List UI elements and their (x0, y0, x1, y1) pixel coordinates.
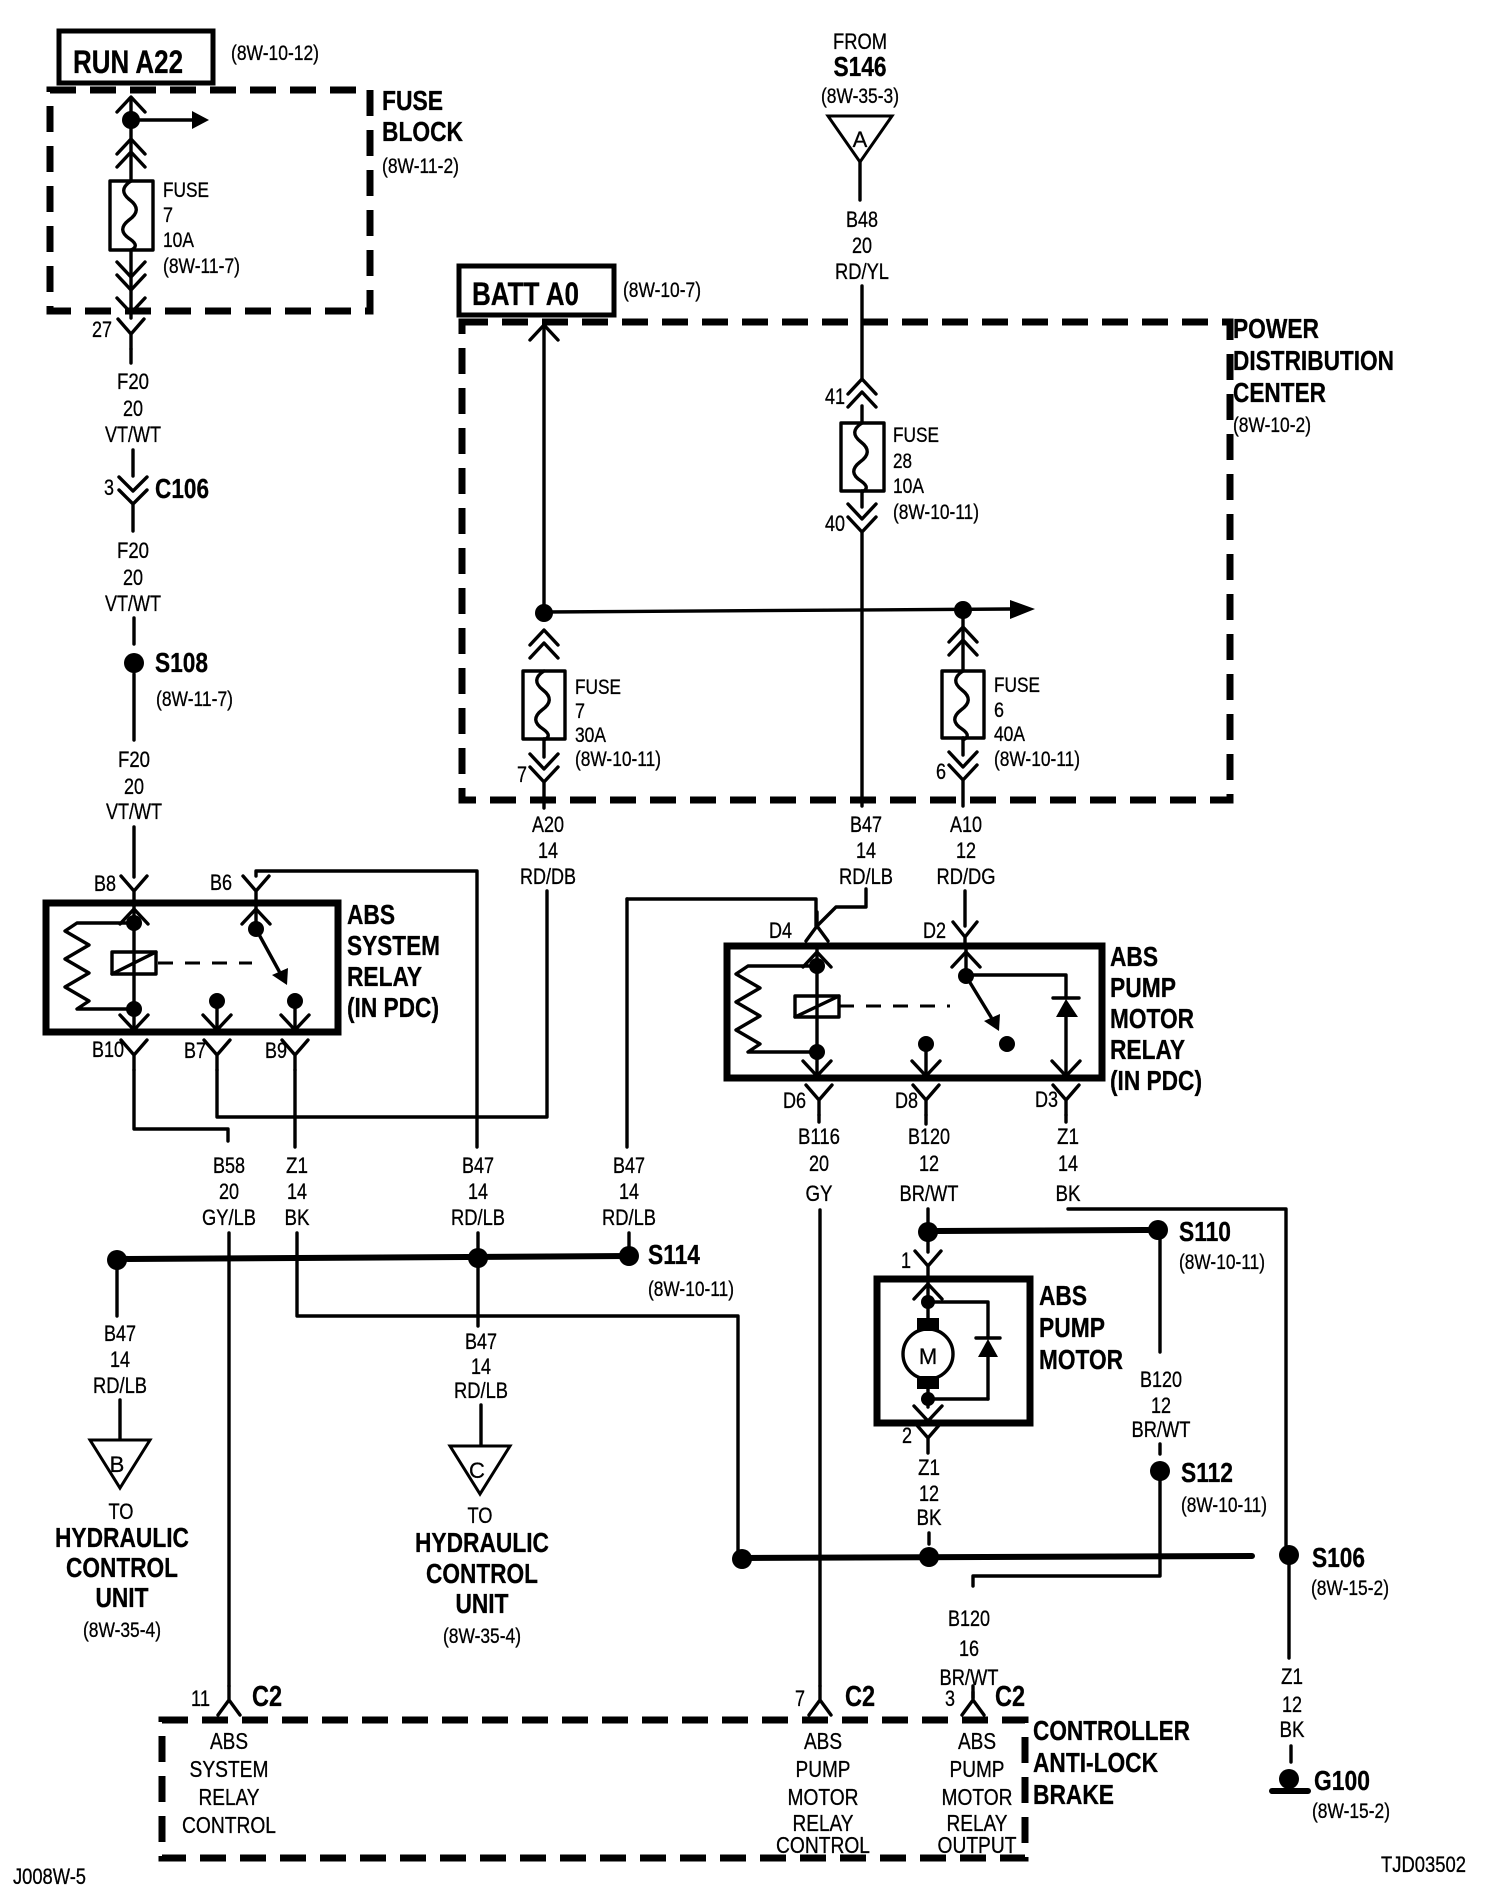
svg-text:FUSE: FUSE (893, 424, 939, 447)
svg-text:D4: D4 (769, 918, 792, 943)
svg-text:PUMP: PUMP (1039, 1312, 1105, 1343)
label Z1 14 BK (1056, 1124, 1081, 1206)
ground G100 (1272, 1769, 1308, 1791)
label B120 16 BR/WT (940, 1606, 999, 1690)
relay box ABS PUMP MOTOR RELAY (727, 946, 1102, 1078)
junction B47 (468, 1248, 488, 1268)
arrow out at D8 (912, 1061, 940, 1076)
wire (118, 1400, 121, 1440)
svg-text:RD/LB: RD/LB (602, 1205, 656, 1230)
label Z1 12 BK (1280, 1664, 1305, 1742)
label B48 20 RD/YL (835, 207, 889, 284)
arrow into relay at B6 (242, 909, 270, 924)
svg-text:TO: TO (109, 1499, 134, 1524)
arrow out at D3 (1052, 1061, 1080, 1076)
svg-text:BK: BK (1280, 1717, 1305, 1742)
svg-text:12: 12 (919, 1481, 939, 1506)
svg-text:D8: D8 (895, 1088, 918, 1113)
svg-text:FUSE: FUSE (575, 676, 621, 699)
svg-text:S146: S146 (834, 51, 887, 82)
svg-text:CONTROL: CONTROL (66, 1552, 178, 1583)
label A20 14 RD/DB (520, 812, 576, 889)
wire Z1 from B9 (293, 1070, 296, 1147)
svg-text:7: 7 (163, 204, 173, 227)
svg-text:12: 12 (1151, 1393, 1171, 1418)
svg-text:27: 27 (92, 317, 112, 342)
svg-text:12: 12 (956, 838, 976, 863)
svg-text:G100: G100 (1314, 1765, 1370, 1796)
svg-text:3: 3 (104, 475, 114, 500)
svg-text:ABS: ABS (347, 899, 395, 930)
svg-text:A20: A20 (532, 812, 564, 837)
svg-text:B7: B7 (184, 1038, 206, 1063)
svg-text:SYSTEM: SYSTEM (347, 930, 440, 961)
splice bus S114 (117, 1256, 629, 1259)
wire B120 to S112 (1158, 1230, 1161, 1352)
connector box BATT A0 (459, 266, 614, 315)
fuse 6 40A (942, 671, 984, 740)
wire (1158, 1444, 1161, 1454)
label F20 20 VT/WT (106, 747, 162, 824)
svg-text:7: 7 (575, 700, 585, 723)
svg-text:Z1: Z1 (286, 1153, 308, 1178)
svg-text:BK: BK (1056, 1181, 1081, 1206)
svg-text:(IN PDC): (IN PDC) (1110, 1065, 1202, 1096)
svg-text:14: 14 (287, 1179, 307, 1204)
svg-text:14: 14 (538, 838, 558, 863)
svg-text:S112: S112 (1181, 1457, 1233, 1488)
svg-text:CONTROL: CONTROL (426, 1558, 538, 1589)
wire Z1 to S106 (1068, 1209, 1286, 1552)
svg-text:M: M (919, 1344, 937, 1369)
label ABS SYSTEM RELAY (IN PDC) (347, 899, 440, 1023)
svg-text:6: 6 (936, 759, 946, 784)
label ABS PUMP MOTOR RELAY CONTROL (776, 1728, 870, 1858)
svg-text:VT/WT: VT/WT (106, 799, 162, 824)
svg-text:14: 14 (468, 1179, 488, 1204)
label CONTROLLER ANTI-LOCK BRAKE (1033, 1715, 1190, 1810)
splice S112 (1150, 1461, 1170, 1481)
fuse block dashed box (50, 90, 370, 311)
svg-text:(8W-10-11): (8W-10-11) (575, 748, 661, 771)
splice bus to S110 (936, 1230, 1148, 1231)
svg-text:D3: D3 (1035, 1087, 1058, 1112)
wire (961, 738, 964, 755)
connector D6 (806, 1085, 832, 1115)
svg-text:B47: B47 (613, 1153, 645, 1178)
junction dot (809, 958, 825, 974)
svg-text:Z1: Z1 (1281, 1664, 1303, 1689)
wire relay coil feed (815, 949, 818, 1078)
connector D2 (953, 922, 977, 948)
svg-text:HYDRAULIC: HYDRAULIC (415, 1527, 549, 1558)
svg-text:(8W-35-4): (8W-35-4) (83, 1619, 161, 1642)
svg-text:7: 7 (517, 762, 527, 787)
svg-text:12: 12 (1282, 1692, 1302, 1717)
label ABS PUMP MOTOR RELAY (IN PDC) (1110, 941, 1202, 1096)
svg-text:14: 14 (110, 1347, 130, 1372)
svg-text:B120: B120 (948, 1606, 990, 1631)
label F20 20 VT/WT (105, 538, 161, 616)
label ABS SYSTEM RELAY CONTROL (182, 1728, 276, 1838)
arrow into motor (914, 1284, 942, 1299)
wire to B7 (215, 1001, 218, 1032)
svg-text:C2: C2 (845, 1681, 875, 1713)
connector B6 (243, 876, 269, 906)
wire (479, 1405, 482, 1446)
svg-text:12: 12 (919, 1151, 939, 1176)
double arrow up (848, 379, 876, 407)
svg-text:20: 20 (809, 1151, 829, 1176)
arrow out at D6 (803, 1061, 831, 1076)
svg-text:POWER: POWER (1233, 313, 1319, 344)
svg-text:C: C (469, 1458, 485, 1483)
svg-text:(IN PDC): (IN PDC) (347, 992, 439, 1023)
splice S110 (1148, 1220, 1168, 1240)
svg-text:10A: 10A (893, 475, 924, 498)
wire Z1 from D3 (1064, 1115, 1067, 1122)
svg-text:B8: B8 (94, 871, 116, 896)
svg-text:VT/WT: VT/WT (105, 422, 161, 447)
svg-text:D6: D6 (783, 1088, 806, 1113)
svg-text:B48: B48 (846, 207, 878, 232)
feed bus arrow (544, 600, 1035, 619)
wire from A (858, 162, 861, 200)
junction pin2 Z1 (919, 1547, 939, 1567)
svg-text:B6: B6 (210, 870, 232, 895)
svg-text:(8W-11-7): (8W-11-7) (163, 255, 240, 278)
svg-text:BLOCK: BLOCK (382, 116, 463, 147)
splice S106 (1279, 1545, 1299, 1565)
label B47 14 RD/LB (839, 812, 893, 889)
wire motor feed (926, 1281, 929, 1320)
svg-text:10A: 10A (163, 229, 194, 252)
double arrow up (117, 139, 145, 167)
svg-text:B120: B120 (1140, 1367, 1182, 1392)
relay switch blade (966, 976, 1000, 1031)
wire to D8 (924, 1044, 927, 1078)
splice on B120 (918, 1222, 938, 1242)
svg-text:2: 2 (902, 1423, 912, 1448)
junction dot (921, 1392, 935, 1406)
svg-text:S114: S114 (648, 1239, 700, 1270)
power distribution center dashed box (462, 322, 1230, 800)
connector pin 27 (118, 319, 144, 349)
junction Z1 bus (732, 1549, 752, 1569)
svg-text:ANTI-LOCK: ANTI-LOCK (1033, 1747, 1158, 1778)
wire B47 to C (476, 1268, 479, 1326)
svg-text:TJD03502: TJD03502 (1381, 1852, 1466, 1877)
double arrow down (949, 752, 977, 780)
svg-text:FUSE: FUSE (163, 179, 209, 202)
svg-text:F20: F20 (117, 369, 149, 394)
svg-text:RELAY: RELAY (1110, 1034, 1185, 1065)
wire Z1 to G100 (1287, 1565, 1290, 1658)
wire Z1 to ground bus (297, 1233, 738, 1556)
wire B47 from B6 (256, 871, 477, 1147)
svg-text:BK: BK (285, 1205, 310, 1230)
wire B120 (926, 1209, 929, 1232)
svg-text:RD/YL: RD/YL (835, 259, 889, 284)
coil-contact dashed link (839, 1005, 950, 1008)
connector C2 pin 11 (218, 1686, 240, 1715)
svg-text:CENTER: CENTER (1233, 377, 1326, 408)
connector C106 (119, 477, 147, 531)
arrow into relay at D4 (803, 952, 831, 967)
svg-text:ABS: ABS (804, 1728, 842, 1754)
svg-text:11: 11 (191, 1686, 210, 1711)
svg-text:F20: F20 (117, 538, 149, 563)
svg-text:16: 16 (959, 1636, 979, 1661)
fuse 7 30A (523, 671, 565, 740)
junction B47 (107, 1250, 127, 1270)
svg-text:(8W-11-2): (8W-11-2) (382, 155, 459, 178)
wire B116 to pin 7 (818, 1210, 821, 1686)
svg-text:S106: S106 (1312, 1542, 1365, 1573)
contact D8 (918, 1036, 934, 1052)
connector B8 (121, 876, 147, 906)
junction dot (122, 111, 140, 129)
wire (971, 1692, 974, 1698)
svg-text:UNIT: UNIT (456, 1588, 509, 1619)
splice S114 (619, 1246, 639, 1266)
svg-text:RUN A22: RUN A22 (73, 44, 183, 80)
svg-text:CONTROL: CONTROL (776, 1832, 870, 1858)
label HYDRAULIC CONTROL UNIT (415, 1527, 549, 1619)
connector C2 pin 7 (809, 1686, 831, 1715)
svg-text:A10: A10 (950, 812, 982, 837)
off-page connector A (828, 116, 892, 162)
connector D3 (1053, 1085, 1079, 1115)
svg-text:(8W-15-2): (8W-15-2) (1311, 1577, 1389, 1600)
switch contact (287, 993, 303, 1009)
label FUSE 28 10A (8W-10-11) (893, 424, 979, 524)
svg-text:BK: BK (917, 1505, 942, 1530)
svg-text:C2: C2 (252, 1681, 282, 1713)
svg-text:ABS: ABS (1039, 1280, 1087, 1311)
arrow out at B10 (120, 1015, 148, 1030)
component box ABS PUMP MOTOR (877, 1279, 1030, 1423)
wire to fuse 6 (961, 610, 964, 671)
arrow up to BATT feed (530, 325, 558, 340)
arrow out at B9 (281, 1015, 309, 1030)
svg-text:14: 14 (471, 1354, 491, 1379)
svg-text:20: 20 (852, 233, 872, 258)
svg-text:BR/WT: BR/WT (1132, 1417, 1191, 1442)
svg-text:Z1: Z1 (918, 1455, 940, 1480)
svg-text:GY/LB: GY/LB (202, 1205, 256, 1230)
svg-text:B47: B47 (465, 1329, 497, 1354)
wire F20 to B8 (132, 827, 135, 877)
connector D8 (913, 1085, 939, 1115)
svg-text:(8W-10-12): (8W-10-12) (231, 42, 319, 65)
svg-text:(8W-35-3): (8W-35-3) (821, 85, 899, 108)
svg-text:MOTOR: MOTOR (788, 1784, 859, 1810)
junction dot (126, 1001, 142, 1017)
svg-text:20: 20 (219, 1179, 239, 1204)
arrow branch right (131, 111, 209, 129)
label FUSE 7 30A (8W-10-11) (575, 676, 661, 771)
svg-text:S108: S108 (155, 647, 208, 678)
svg-text:CONTROLLER: CONTROLLER (1033, 1715, 1190, 1746)
double arrow down (117, 262, 145, 290)
svg-text:FUSE: FUSE (994, 674, 1040, 697)
wire B58 to pin 11 (227, 1233, 230, 1686)
coil-contact dashed link (158, 962, 252, 965)
svg-text:ABS: ABS (1110, 941, 1158, 972)
fuse 7 10A (110, 181, 153, 250)
connector B7 (204, 1040, 230, 1070)
off-page connector C (450, 1446, 510, 1494)
svg-text:14: 14 (619, 1179, 639, 1204)
svg-text:1: 1 (901, 1248, 911, 1273)
wire B48 into PDC (860, 286, 863, 380)
svg-text:UNIT: UNIT (96, 1582, 149, 1613)
svg-text:B10: B10 (92, 1037, 124, 1062)
wire (627, 1233, 630, 1256)
svg-text:(8W-10-7): (8W-10-7) (623, 279, 701, 302)
wire (860, 491, 863, 507)
wire to motor diode (928, 1302, 988, 1338)
junction dot (248, 921, 264, 937)
svg-text:(8W-10-11): (8W-10-11) (648, 1278, 734, 1301)
relay coil resistor (736, 966, 817, 1052)
svg-text:F20: F20 (118, 747, 150, 772)
svg-text:B120: B120 (908, 1124, 950, 1149)
double arrow up (530, 630, 558, 658)
wire to switch (964, 949, 967, 976)
svg-text:(8W-11-7): (8W-11-7) (156, 688, 233, 711)
svg-text:(8W-15-2): (8W-15-2) (1312, 1800, 1390, 1823)
svg-text:(8W-10-2): (8W-10-2) (1233, 414, 1311, 437)
wire F20 (132, 618, 135, 644)
svg-text:B116: B116 (798, 1124, 840, 1149)
arrow up to RUN A22 feed (117, 97, 145, 112)
label B47 14 RD/LB (602, 1153, 656, 1230)
diode (1053, 998, 1079, 1078)
motor M1 (903, 1318, 953, 1389)
wire relay coil feed (132, 906, 135, 1032)
svg-text:DISTRIBUTION: DISTRIBUTION (1233, 345, 1394, 376)
wire B116 (817, 1115, 820, 1122)
label HYDRAULIC CONTROL UNIT (55, 1522, 189, 1613)
wire to B9 (293, 1001, 296, 1032)
wire B47 to S114 (476, 1233, 479, 1257)
wire (1289, 1746, 1292, 1762)
svg-text:RD/LB: RD/LB (451, 1205, 505, 1230)
svg-text:B: B (110, 1452, 125, 1477)
svg-text:PUMP: PUMP (796, 1756, 851, 1782)
ground bus (742, 1556, 1252, 1558)
arrow out at B7 (203, 1015, 231, 1030)
wire B47 through PDC (860, 533, 863, 806)
svg-text:RD/LB: RD/LB (454, 1378, 508, 1403)
svg-text:B47: B47 (850, 812, 882, 837)
wire A10 exits PDC (961, 781, 964, 806)
junction dot (809, 1044, 825, 1060)
svg-text:(8W-10-11): (8W-10-11) (1181, 1494, 1267, 1517)
junction dot (126, 915, 142, 931)
svg-text:RD/DG: RD/DG (937, 864, 996, 889)
svg-text:FUSE: FUSE (382, 85, 443, 116)
arrow out of motor (914, 1406, 942, 1421)
wire B47 to B (115, 1270, 118, 1316)
svg-text:SYSTEM: SYSTEM (190, 1756, 269, 1782)
svg-text:MOTOR: MOTOR (1110, 1003, 1194, 1034)
svg-text:RD/LB: RD/LB (839, 864, 893, 889)
svg-text:3: 3 (945, 1686, 955, 1711)
svg-text:RD/LB: RD/LB (93, 1373, 147, 1398)
wire ignition feed (129, 99, 132, 181)
connector B9 (282, 1040, 308, 1070)
junction dot (954, 601, 972, 619)
splice S108 (124, 653, 144, 673)
connector B10 (121, 1040, 147, 1070)
svg-text:RD/DB: RD/DB (520, 864, 576, 889)
arrow into relay at B8 (120, 909, 148, 924)
label B116 20 GY (798, 1124, 840, 1206)
wire B47 branch (627, 899, 816, 926)
junction dot (921, 1295, 935, 1309)
wire B47 jog into D4 (817, 889, 866, 926)
junction dot (535, 604, 553, 622)
arrow down at fuse block border (117, 298, 145, 313)
relay switch blade (256, 929, 288, 985)
svg-text:20: 20 (123, 396, 143, 421)
fuse 28 10A (841, 423, 884, 492)
svg-text:20: 20 (123, 565, 143, 590)
wire to switch (254, 906, 257, 929)
svg-text:(8W-35-4): (8W-35-4) (443, 1625, 521, 1648)
svg-text:S110: S110 (1179, 1216, 1231, 1247)
wire A20 exits PDC (542, 783, 545, 808)
svg-text:BR/WT: BR/WT (900, 1181, 959, 1206)
label B47 14 RD/LB (451, 1153, 505, 1230)
svg-text:A: A (853, 127, 868, 152)
wire (860, 406, 863, 423)
wire A20 to B7 (217, 891, 547, 1117)
wire (129, 349, 132, 363)
label B47 14 RD/LB (454, 1329, 508, 1403)
svg-text:ABS: ABS (958, 1728, 996, 1754)
label FUSE BLOCK (382, 85, 463, 147)
wire B120 (924, 1115, 927, 1124)
svg-text:6: 6 (994, 699, 1004, 722)
svg-text:GY: GY (806, 1181, 833, 1206)
svg-text:D2: D2 (923, 918, 946, 943)
svg-text:OUTPUT: OUTPUT (938, 1832, 1017, 1858)
svg-text:C106: C106 (155, 473, 209, 504)
wire A10 into D2 (963, 891, 966, 926)
connector pin 1 (915, 1251, 941, 1281)
svg-text:(8W-10-11): (8W-10-11) (893, 501, 979, 524)
controller anti-lock brake dashed box (162, 1720, 1025, 1858)
connector D4 (806, 912, 828, 941)
svg-text:40: 40 (825, 511, 845, 536)
svg-text:TO: TO (468, 1503, 493, 1528)
label B120 12 BR/WT (900, 1124, 959, 1206)
svg-text:14: 14 (1058, 1151, 1078, 1176)
svg-text:40A: 40A (994, 723, 1025, 746)
double arrow down (848, 504, 876, 532)
label FUSE 6 40A (8W-10-11) (994, 674, 1080, 771)
label POWER DISTRIBUTION CENTER (1233, 313, 1394, 408)
relay coil (795, 996, 839, 1017)
svg-text:C2: C2 (995, 1681, 1025, 1713)
double arrow up (949, 627, 977, 655)
label F20 20 VT/WT (105, 369, 161, 447)
svg-text:VT/WT: VT/WT (105, 591, 161, 616)
